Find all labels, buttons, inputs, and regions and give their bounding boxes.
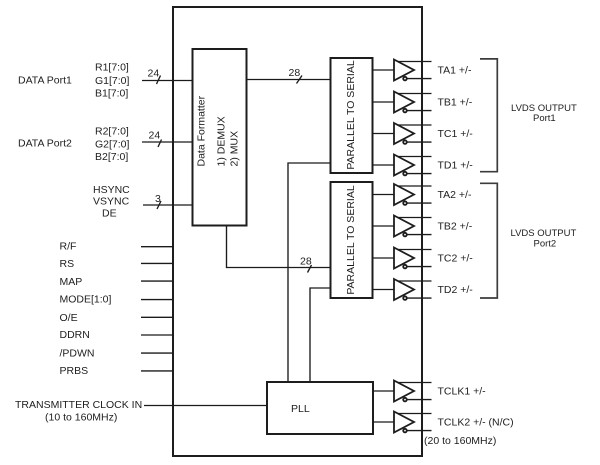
LVDS buffer TA1 [372,60,432,81]
LVDS buffer TD2 [372,279,432,300]
LVDS buffer TD1 [372,155,432,176]
bus width label 24 (Port1) [148,68,161,85]
svg-text:2) MUX: 2) MUX [229,131,241,167]
wire bus Data Formatter to Parallel to Serial Port2 [227,226,332,268]
wire control input MODE[1:0] [141,299,173,301]
svg-text:PARALLEL TO SERIAL: PARALLEL TO SERIAL [345,60,357,169]
wire bus Data Formatter to Parallel to Serial Port1 [247,79,332,81]
wire control input /PDWN [141,352,173,354]
svg-text:DDRN: DDRN [60,329,90,341]
svg-text:24: 24 [148,68,160,80]
svg-text:TA1 +/-: TA1 +/- [438,65,472,77]
svg-text:B1[7:0]: B1[7:0] [95,88,128,100]
svg-text:24: 24 [149,130,161,142]
bus width label 28 (Port1) [289,67,303,84]
wire control input PRBS [141,370,173,372]
block U1 Data Formatter [193,49,247,226]
bracket LVDS OUTPUT Port2 [480,183,497,298]
svg-text:PLL: PLL [291,403,310,415]
bus width label 3 [155,193,161,209]
svg-text:TA2 +/-: TA2 +/- [438,189,472,201]
svg-text:TC1 +/-: TC1 +/- [438,128,474,140]
block U2 Parallel to Serial (Port1) [331,58,373,173]
svg-text:TD1 +/-: TD1 +/- [438,160,474,172]
svg-text:TRANSMITTER CLOCK IN: TRANSMITTER CLOCK IN [15,399,142,411]
svg-text:O/E: O/E [60,312,78,324]
block U3 Parallel to Serial (Port2) [331,182,373,298]
chip boundary [173,7,422,456]
svg-text:TB1 +/-: TB1 +/- [438,97,473,109]
LVDS buffer TB1 [372,92,432,113]
svg-text:RS: RS [60,258,75,270]
svg-text:(10 to 160MHz): (10 to 160MHz) [45,412,117,424]
wire control input O/E [141,316,173,318]
svg-text:VSYNC: VSYNC [93,196,130,208]
svg-text:DATA Port1: DATA Port1 [18,75,72,87]
svg-text:28: 28 [289,67,301,79]
svg-text:PRBS: PRBS [60,365,89,377]
bracket LVDS OUTPUT Port1 [480,59,497,172]
wire control input MAP [141,280,173,282]
wire TRANSMITTER CLOCK IN to PLL [144,405,267,407]
wire control input DDRN [141,334,173,336]
svg-text:B2[7:0]: B2[7:0] [95,151,128,163]
wire bus DATA Port1 input [142,80,193,82]
svg-text:G1[7:0]: G1[7:0] [95,75,130,87]
svg-text:MAP: MAP [60,276,83,288]
svg-text:Port2: Port2 [534,239,557,250]
LVDS buffer TB2 [372,216,432,237]
svg-text:LVDS OUTPUT: LVDS OUTPUT [511,228,577,239]
svg-text:TC2 +/-: TC2 +/- [438,253,474,265]
LVDS buffer TCLK1 [373,381,432,402]
LVDS buffer TC2 [372,248,432,269]
wire control input RS [141,262,173,264]
svg-text:MODE[1:0]: MODE[1:0] [60,294,112,306]
LVDS buffer TA2 [372,184,432,205]
svg-text:1) DEMUX: 1) DEMUX [216,116,228,166]
svg-text:Data Formatter: Data Formatter [196,95,208,166]
wire bus DATA Port2 input [142,141,193,143]
svg-text:HSYNC: HSYNC [93,184,130,196]
svg-text:PARALLEL TO SERIAL: PARALLEL TO SERIAL [345,185,357,294]
label LVDS OUTPUT Port2 [511,228,577,250]
bus width label 24 (Port2) [149,130,162,148]
svg-text:TCLK1 +/-: TCLK1 +/- [438,386,487,398]
block U4 PLL [267,382,373,434]
wire control input R/F [141,246,173,248]
wire bus sync input [143,204,193,206]
bus width label 28 (Port2) [300,256,312,273]
svg-text:/PDWN: /PDWN [60,348,95,360]
svg-text:TCLK2 +/- (N/C): TCLK2 +/- (N/C) [438,417,514,429]
svg-text:TB2 +/-: TB2 +/- [438,221,473,233]
svg-text:R1[7:0]: R1[7:0] [95,62,129,74]
svg-text:R/F: R/F [60,241,77,253]
svg-text:TD2 +/-: TD2 +/- [438,284,474,296]
svg-text:G2[7:0]: G2[7:0] [95,139,130,151]
LVDS buffer TCLK2 [373,412,432,433]
svg-text:(20 to 160MHz): (20 to 160MHz) [424,435,496,447]
label LVDS OUTPUT Port1 [511,103,577,124]
wire PLL clock to Parallel to Serial Port2 [310,288,331,382]
svg-text:28: 28 [300,256,312,268]
wire PLL clock to Parallel to Serial Port1 [288,163,331,382]
svg-text:DE: DE [102,208,117,220]
svg-text:Port1: Port1 [533,113,556,124]
LVDS buffer TC1 [372,123,432,144]
svg-text:R2[7:0]: R2[7:0] [95,126,129,138]
svg-text:DATA Port2: DATA Port2 [18,138,72,150]
